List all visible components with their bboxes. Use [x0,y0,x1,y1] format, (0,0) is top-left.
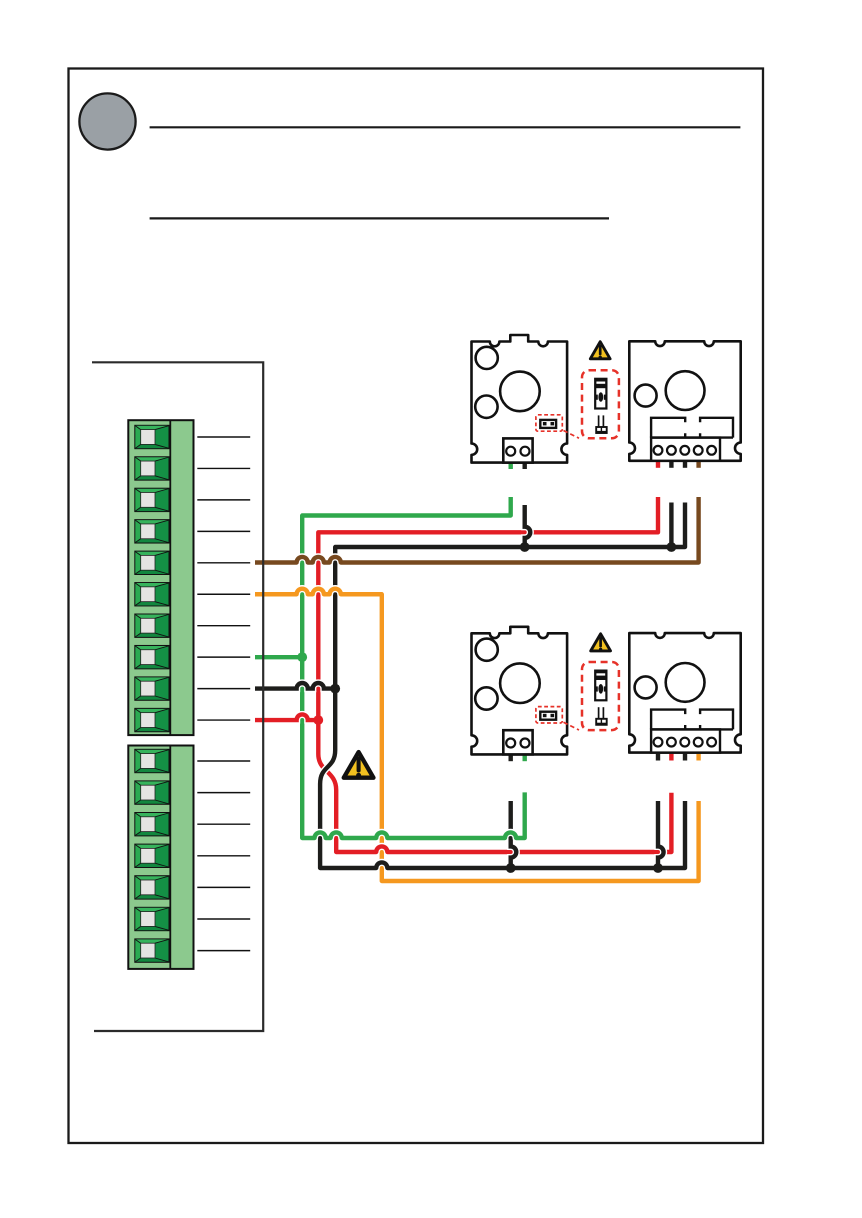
junction dot black RX1 [667,542,677,552]
junction dot red terminal 10 [313,715,323,725]
wire red bottom run to RX2 [336,793,671,852]
wire black RX2 pigtail stub b [683,754,687,761]
wire green terminal 8 stub [255,654,302,661]
wire green TX1 pigtail stub [509,463,513,469]
terminal block X2 [128,746,193,969]
wire orange RX2 pigtail stub [696,754,700,761]
wire black trunk: RX1 to twist riser [320,503,685,846]
photocell RX1 [629,341,740,461]
wire black RX1 pigtail stub a [669,461,673,468]
warning triangle row1 [590,342,610,359]
wire black TX1 drop with hop over red [525,505,531,547]
photocell TX2 [472,627,580,755]
jumper detail box row2 [582,662,619,730]
wire red RX2 pigtail stub [669,754,673,761]
wire black RX2 pigtail stub a [656,754,660,761]
wire brown RX1 pigtail stub [696,461,700,468]
control board outline [92,362,263,1031]
junction dot black TX1 [520,542,530,552]
wire red RX1 pigtail stub [656,461,660,468]
wire red terminal 10 stub [255,714,318,720]
junction dot black terminal 9 [330,684,340,694]
junction dot green terminal 8 [297,652,307,662]
warning triangle row2 [591,634,611,651]
wire green trunk: TX1 to left riser [302,497,511,840]
wire black RX1 drop a [669,503,673,548]
wire black bottom run to RX2 [320,801,685,868]
terminal lead lines X2 [197,761,250,951]
warning triangle at twisted pair [344,752,374,778]
junction dot black RX2 [653,863,663,873]
jumper detail box row1 [582,370,619,438]
photocell TX1 [472,335,580,463]
wire black terminal 9 stub [255,683,335,689]
photocell RX2 [629,633,740,753]
wire red trunk: RX1 to twist riser [318,497,658,830]
wire black TX1 pigtail stub [523,463,527,469]
wire orange terminal 6 to RX2 [255,589,699,881]
wire black RX2 drop a with hop over red [658,801,664,868]
wire green TX2 pigtail stub [523,754,527,761]
junction dot black TX2 [506,863,516,873]
wire black RX1 pigtail stub b [683,461,687,468]
wire brown terminal 5 to RX1 [255,497,699,563]
terminal block X1 [128,420,193,735]
terminal block X2 cells [135,750,168,962]
wire green bottom run to TX2 [302,792,525,838]
wire black TX2 pigtail stub [509,754,513,761]
wire black TX2 drop with hop over red [511,801,517,868]
terminal lead lines X1 [197,437,250,720]
terminal block X1 cells [135,426,168,731]
